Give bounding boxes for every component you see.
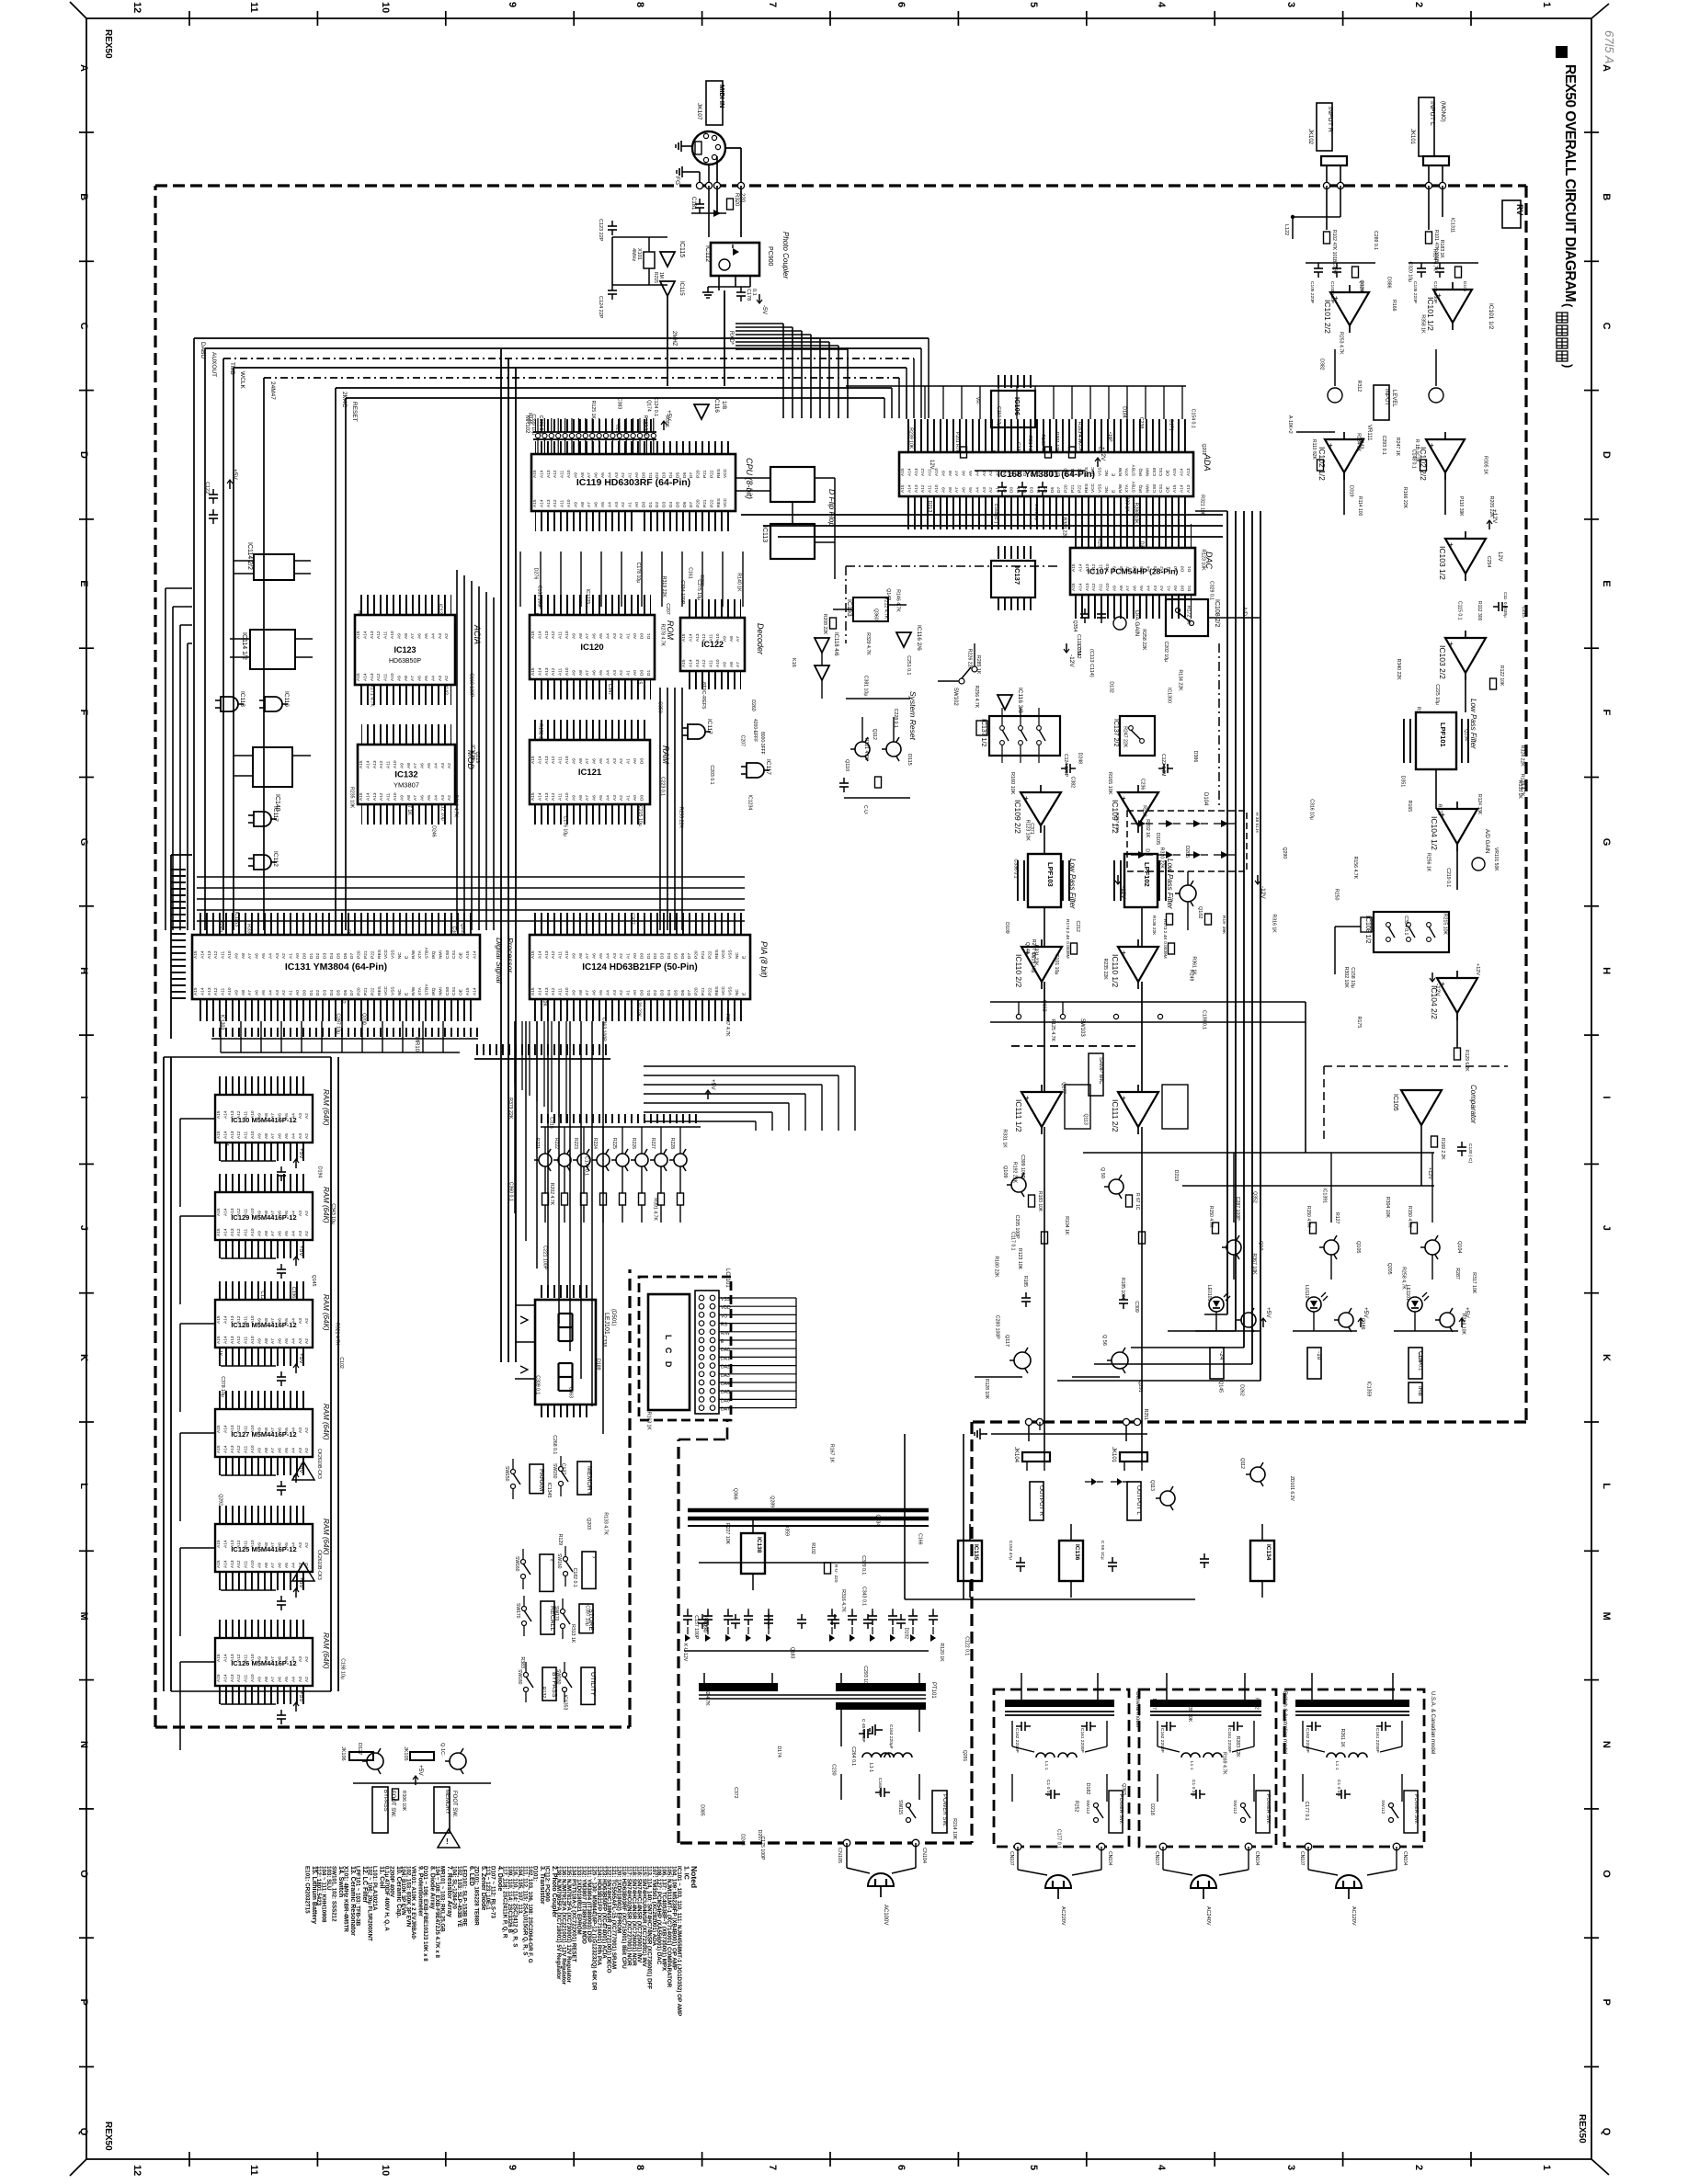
svg-text:+: +	[1329, 441, 1333, 449]
svg-text:A11: A11	[244, 1228, 249, 1236]
svg-text:A2: A2	[281, 953, 287, 959]
svg-text:A5: A5	[261, 953, 267, 959]
svg-text:C122 2.2M: C122 2.2M	[1160, 754, 1166, 776]
svg-text:D101: D101	[1359, 281, 1364, 292]
svg-text:C115 0.1: C115 0.1	[1457, 601, 1463, 620]
zener cluster	[1091, 1478, 1097, 1485]
svg-text:A6: A6	[592, 953, 598, 959]
svg-text:A8: A8	[948, 487, 953, 493]
svg-text:10: 10	[380, 2, 391, 13]
svg-text:R183 10K: R183 10K	[1037, 1191, 1043, 1212]
svg-text:A14: A14	[365, 760, 371, 768]
IC108 2/2 switch	[1166, 599, 1208, 636]
svg-text:D127: D127	[357, 1743, 362, 1755]
svg-text:CS1: CS1	[1158, 483, 1164, 493]
svg-text:A8: A8	[578, 953, 584, 959]
svg-text:A5: A5	[284, 1133, 290, 1139]
IC120 ROM	[533, 595, 651, 615]
svg-text:A2: A2	[304, 1231, 310, 1236]
IC116 3/8 triangle	[998, 695, 1012, 710]
left bus into DSP	[170, 855, 172, 1039]
svg-text:A6: A6	[278, 1231, 283, 1236]
svg-text:A15: A15	[193, 950, 199, 959]
svg-text:A·10K×2: A·10K×2	[1287, 415, 1293, 434]
svg-text:A14: A14	[222, 1336, 228, 1344]
svg-text:MR102: MR102	[524, 415, 530, 434]
IC130	[219, 1076, 309, 1095]
svg-text:C280 100P: C280 100P	[994, 1315, 999, 1339]
svg-text:R150 4.7K: R150 4.7K	[1306, 1206, 1311, 1228]
svg-text:P21: P21	[702, 470, 708, 478]
svg-text:R·U· 220: R·U· 220	[833, 1564, 838, 1583]
svg-text:A4: A4	[975, 487, 980, 493]
svg-text:R136 22K: R136 22K	[1151, 916, 1157, 936]
svg-text:C309: C309	[1134, 1301, 1139, 1313]
svg-text:IC105: IC105	[1392, 1094, 1398, 1111]
svg-text:IC132: IC132	[394, 770, 417, 780]
svg-text:A8: A8	[264, 1448, 269, 1453]
svg-text:A15: A15	[1172, 484, 1178, 493]
svg-text:R224: R224	[592, 1138, 598, 1149]
svg-text:Photo Coupler: Photo Coupler	[781, 232, 790, 279]
IC123 ACIA	[359, 595, 451, 615]
svg-text:C105 220P: C105 220P	[1309, 281, 1315, 303]
svg-text:REX50 OVERALL CIRCUIT DIAGRAM: REX50 OVERALL CIRCUIT DIAGRAM	[1562, 64, 1578, 301]
svg-text:R140 1K: R140 1K	[736, 573, 742, 592]
svg-text:VCC: VCC	[383, 985, 389, 995]
svg-text:D7: D7	[689, 502, 694, 507]
svg-text:A3: A3	[275, 990, 280, 995]
svg-text:A2: A2	[304, 1448, 310, 1453]
svg-text:E: E	[78, 580, 89, 586]
svg-text:A8: A8	[264, 1563, 269, 1568]
opamps IC111	[1021, 1092, 1062, 1127]
IC137 2/2 switch	[1120, 716, 1155, 756]
svg-text:VSS: VSS	[728, 950, 734, 959]
svg-text:P20: P20	[694, 950, 700, 959]
svg-text:D386: D386	[1192, 751, 1198, 763]
svg-text:A5: A5	[599, 758, 604, 764]
svg-text:A4: A4	[291, 1338, 296, 1344]
svg-text:LEJ101: LEJ101	[603, 1313, 610, 1335]
svg-text:A8: A8	[406, 763, 412, 768]
svg-text:P21: P21	[1070, 484, 1076, 493]
svg-text:Decoder: Decoder	[756, 623, 765, 655]
svg-text:D382: D382	[1319, 358, 1325, 370]
grid ticks top/bottom	[188, 11, 190, 26]
svg-text:C178: C178	[746, 289, 751, 301]
svg-text:A8: A8	[578, 633, 584, 639]
svg-text:D1: D1	[1187, 586, 1192, 591]
svg-text:A1: A1	[626, 953, 632, 959]
svg-text:A13: A13	[1186, 468, 1192, 476]
svg-text:67l5 A: 67l5 A	[1602, 30, 1616, 63]
svg-text:P201 R7K: P201 R7K	[954, 432, 960, 453]
A/D GAIN trimmer	[1472, 858, 1485, 870]
svg-text:IC122: IC122	[701, 640, 724, 649]
svg-text:R257 25K: R257 25K	[1114, 813, 1120, 833]
svg-text:A15: A15	[216, 1131, 222, 1139]
svg-text:A8: A8	[406, 795, 412, 801]
svg-text:P20: P20	[1064, 484, 1069, 493]
svg-text:O: O	[1601, 1870, 1612, 1878]
svg-text:A12: A12	[920, 484, 926, 493]
svg-text:R301 13K: R301 13K	[1054, 432, 1059, 453]
svg-text:IC114 1/2: IC114 1/2	[241, 632, 247, 660]
svg-text:A3: A3	[298, 1448, 303, 1453]
svg-text:2: 2	[1413, 2, 1424, 7]
svg-text:D0: D0	[639, 990, 644, 995]
svg-text:C343 0.1: C343 0.1	[861, 1587, 867, 1606]
svg-text:INPUT L: INPUT L	[1429, 101, 1435, 126]
svg-text:): )	[1561, 364, 1575, 368]
svg-text:D6: D6	[682, 502, 688, 507]
svg-text:C219 0.1: C219 0.1	[1445, 868, 1451, 887]
svg-text:D1: D1	[646, 670, 652, 676]
svg-text:C207: C207	[740, 735, 746, 747]
svg-text:R124 33K: R124 33K	[1477, 794, 1482, 815]
svg-text:C117 0.1: C117 0.1	[1010, 1232, 1016, 1251]
svg-text:D109: D109	[1004, 922, 1009, 934]
SAMPLE MIC boxed	[1089, 1053, 1103, 1096]
svg-text:VDD: VDD	[721, 1305, 731, 1311]
svg-text:A10: A10	[566, 470, 572, 478]
svg-text:IC126 M5M4416P-12: IC126 M5M4416P-12	[231, 1659, 296, 1667]
svg-text:D276: D276	[532, 568, 538, 580]
svg-text:IC112: IC112	[704, 245, 711, 262]
svg-text:N: N	[1601, 1741, 1612, 1748]
svg-text:A15: A15	[216, 1336, 222, 1344]
svg-text:A15: A15	[216, 1445, 222, 1453]
svg-text:C124 270P: C124 270P	[1063, 754, 1068, 778]
svg-text:A13: A13	[544, 792, 550, 801]
svg-text:A0: A0	[295, 990, 301, 995]
svg-text:G: G	[1601, 838, 1612, 847]
svg-text:A10: A10	[250, 1445, 256, 1453]
svg-text:A9: A9	[257, 1231, 262, 1236]
svg-text:A7: A7	[585, 633, 590, 639]
svg-text:A3: A3	[440, 795, 446, 801]
svg-text:A8: A8	[578, 758, 584, 764]
svg-text:A15: A15	[216, 1315, 222, 1324]
svg-text:A0: A0	[633, 670, 638, 676]
svg-text:A13: A13	[207, 950, 212, 959]
svg-text:220: 220	[739, 193, 745, 203]
LCD connector strip	[695, 1291, 719, 1414]
IC125	[219, 1506, 309, 1524]
svg-text:O: O	[78, 1870, 89, 1878]
svg-text:14. Switch: 14. Switch	[337, 1866, 344, 1897]
svg-text:A4: A4	[291, 1563, 296, 1568]
svg-text:7: 7	[767, 2, 778, 7]
svg-text:I: I	[1601, 1096, 1612, 1098]
svg-text:A8: A8	[264, 1133, 269, 1139]
svg-text:A7: A7	[247, 990, 253, 995]
svg-text:Comparator: Comparator	[1469, 1085, 1477, 1124]
RV box	[1502, 200, 1521, 228]
svg-text:IC103 2/2: IC103 2/2	[1438, 645, 1447, 679]
svg-text:A3: A3	[612, 670, 618, 676]
svg-text:PC900: PC900	[767, 246, 773, 267]
svg-text:A13: A13	[544, 950, 550, 959]
svg-text:A1: A1	[626, 758, 632, 764]
svg-text:A7: A7	[585, 990, 590, 995]
svg-text:A5: A5	[968, 471, 974, 476]
svg-text:A13: A13	[370, 673, 375, 681]
svg-text:D3: D3	[660, 990, 666, 995]
wires DSP-PIA row down	[220, 1021, 222, 1052]
svg-text:A12: A12	[701, 659, 707, 667]
svg-text:A3: A3	[612, 990, 618, 995]
svg-text:IC135: IC135	[973, 1544, 979, 1561]
opamps IC109	[1021, 792, 1061, 825]
svg-text:A10: A10	[565, 667, 570, 676]
svg-text:P21: P21	[701, 950, 706, 959]
svg-text:P20: P20	[696, 470, 701, 478]
svg-text:A5: A5	[1139, 586, 1145, 591]
svg-text:1: 1	[1541, 2165, 1552, 2170]
svg-text:NC: NC	[1104, 470, 1110, 476]
svg-text:R383: R383	[519, 1657, 525, 1669]
svg-text:A8: A8	[580, 502, 586, 507]
svg-text:A3: A3	[298, 1231, 303, 1236]
svg-text:CS1: CS1	[451, 986, 457, 995]
svg-text:A10: A10	[250, 1228, 256, 1236]
svg-text:IC123: IC123	[393, 645, 416, 654]
svg-text:A9: A9	[399, 795, 405, 801]
svg-text:P22: P22	[370, 987, 375, 995]
svg-text:-12V: -12V	[1434, 984, 1441, 996]
misc transistors near reg	[1160, 1491, 1175, 1506]
svg-text:VSS: VSS	[1098, 467, 1103, 476]
svg-text:IC117: IC117	[706, 719, 713, 734]
svg-text:XTA: XTA	[1124, 483, 1130, 493]
svg-text:JK106: JK106	[340, 1746, 346, 1761]
switch BYPASS	[542, 1667, 556, 1701]
svg-text:IC110 2/2: IC110 2/2	[1014, 954, 1023, 988]
svg-text:9: 9	[507, 2, 518, 7]
svg-text:D7: D7	[349, 990, 355, 995]
svg-text:MOD: MOD	[466, 750, 475, 769]
svg-text:A12: A12	[553, 470, 558, 478]
svg-text:J: J	[78, 1225, 89, 1231]
svg-text:C1·0 0.1: C1·0 0.1	[1191, 1780, 1196, 1797]
svg-text:L1·1: L1·1	[1189, 1761, 1194, 1770]
svg-text:RES: RES	[377, 950, 382, 959]
svg-text:A10: A10	[715, 659, 721, 667]
dashed support lines comparator	[1324, 1065, 1508, 1067]
svg-text:8000-3FFF: 8000-3FFF	[759, 732, 765, 755]
svg-text:A9: A9	[396, 676, 402, 681]
connector JK107 MIDI IN	[706, 81, 723, 125]
svg-text:A10: A10	[565, 987, 570, 995]
svg-text:A15: A15	[216, 1654, 222, 1662]
svg-text:R166 22K: R166 22K	[1402, 487, 1408, 509]
svg-text:Q104: Q104	[1456, 1241, 1462, 1253]
svg-text:A15: A15	[356, 631, 361, 639]
svg-text:A12: A12	[236, 1228, 242, 1236]
svg-text:A14: A14	[537, 792, 542, 801]
svg-text:PARAM: PARAM	[538, 1469, 544, 1492]
svg-text:A13: A13	[1186, 484, 1192, 493]
RAM bus verticals	[163, 1057, 165, 1691]
svg-text:L1·1: L1·1	[1334, 1761, 1340, 1770]
svg-text:D219: D219	[1173, 1170, 1179, 1182]
svg-text:A2: A2	[304, 1133, 310, 1139]
svg-text:R183 1K: R183 1K	[1439, 240, 1444, 259]
svg-text:A5: A5	[424, 676, 429, 681]
IC137 1/2 switches	[989, 716, 1060, 756]
svg-text:A4: A4	[430, 633, 436, 639]
IC168 YM3801 ADA	[903, 419, 1190, 452]
svg-text:D6: D6	[343, 990, 348, 995]
svg-text:RAM: RAM	[661, 745, 670, 765]
svg-text:K250 23K: K250 23K	[1078, 432, 1083, 453]
svg-text:A14: A14	[222, 1208, 228, 1216]
svg-text:A14: A14	[222, 1654, 228, 1662]
svg-text:C221 100P: C221 100P	[542, 1246, 548, 1269]
svg-text:NMI: NMI	[1145, 468, 1150, 476]
svg-text:E: E	[741, 956, 747, 959]
LPF101	[1416, 712, 1456, 769]
svg-text:D2: D2	[653, 990, 658, 995]
svg-text:-12V: -12V	[1120, 886, 1126, 899]
svg-text:A12: A12	[379, 760, 384, 768]
svg-text:R167 1K: R167 1K	[828, 1444, 834, 1463]
svg-text:A13: A13	[546, 470, 552, 478]
svg-text:A15: A15	[681, 633, 687, 642]
svg-text:C251 0.1: C251 0.1	[906, 655, 911, 675]
svg-text:A1: A1	[626, 990, 632, 995]
svg-text:13. Ceramic Resonator: 13. Ceramic Resonator	[349, 1866, 356, 1936]
svg-text:R202 4.7K: R202 4.7K	[549, 1183, 554, 1206]
svg-text:D6: D6	[680, 990, 686, 995]
svg-text:L C D: L C D	[664, 1335, 673, 1370]
svg-text:YM3807: YM3807	[393, 781, 419, 790]
svg-text:A12: A12	[551, 631, 556, 639]
svg-text:D4: D4	[668, 502, 674, 507]
svg-text:C130 (·C): C130 (·C)	[1467, 1143, 1473, 1163]
svg-text:A14: A14	[222, 1560, 228, 1568]
svg-text:A2: A2	[304, 1542, 310, 1548]
svg-text:R256 4.7K: R256 4.7K	[974, 686, 979, 709]
svg-text:C157 100P: C157 100P	[693, 1615, 699, 1639]
svg-text:E: E	[404, 956, 409, 959]
svg-text:IC101 2/2: IC101 2/2	[1323, 300, 1332, 334]
svg-text:A3: A3	[298, 1542, 303, 1548]
svg-text:A11: A11	[383, 673, 389, 681]
svg-text:A13: A13	[544, 756, 550, 764]
lcd bus right	[736, 1331, 796, 1333]
svg-text:A13: A13	[544, 667, 550, 676]
svg-text:TMB: TMB	[229, 362, 235, 375]
svg-text:A6: A6	[420, 795, 426, 801]
svg-text:2. Photo Coupler: 2. Photo Coupler	[551, 1866, 557, 1917]
svg-text:A6: A6	[592, 990, 598, 995]
svg-text:D4: D4	[329, 990, 335, 995]
svg-text:A11: A11	[558, 667, 564, 676]
svg-text:C354 0.1: C354 0.1	[1403, 916, 1409, 935]
nested wires up-right of transistors	[644, 1065, 855, 1067]
svg-text:+5V: +5V	[298, 1148, 304, 1159]
svg-text:B: B	[1601, 193, 1612, 200]
svg-text:IC108 1/2: IC108 1/2	[1364, 916, 1371, 943]
svg-text:Q363: Q363	[1121, 1783, 1126, 1795]
svg-text:R223: R223	[573, 1138, 578, 1149]
svg-text:9: 9	[507, 2165, 518, 2170]
svg-text:4200-EFFF: 4200-EFFF	[752, 719, 758, 742]
svg-text:A14: A14	[362, 673, 368, 681]
svg-text:R123 10K: R123 10K	[1017, 1248, 1022, 1270]
svg-text:SAMP MIC: SAMP MIC	[1098, 1057, 1103, 1085]
svg-text:SW112: SW112	[1380, 1800, 1386, 1814]
svg-text:C111 C112: C111 C112	[1076, 634, 1081, 659]
svg-text:Q113: Q113	[1149, 1480, 1155, 1491]
svg-text:C372: C372	[733, 1787, 738, 1799]
svg-text:R185: R185	[1022, 1276, 1028, 1287]
IC116 1/8 inverter	[694, 404, 709, 419]
svg-text:+5V: +5V	[666, 410, 672, 421]
svg-text:A8: A8	[1119, 586, 1124, 591]
svg-text:R150 4.7K: R150 4.7K	[1407, 1206, 1412, 1228]
svg-text:D0: D0	[1180, 586, 1185, 591]
svg-text:H: H	[1601, 967, 1612, 974]
misc caps left	[209, 494, 218, 495]
svg-text:CS0: CS0	[1152, 467, 1158, 476]
svg-text:REX50: REX50	[1577, 2114, 1587, 2144]
svg-text:JK104: JK104	[1013, 1447, 1019, 1463]
svg-text:P110 39K: P110 39K	[1458, 496, 1464, 517]
svg-text:A0: A0	[295, 953, 301, 959]
svg-text:CN107: CN107	[1009, 1851, 1014, 1866]
IC103 2/2 opamp	[1445, 638, 1486, 673]
svg-text:A7: A7	[736, 662, 741, 667]
svg-text:A10: A10	[393, 760, 398, 768]
svg-text:VCC: VCC	[383, 949, 389, 959]
svg-text:C202 10µ: C202 10µ	[1163, 642, 1169, 663]
LED cluster CLIP	[1425, 1240, 1440, 1255]
svg-text:R226 22K: R226 22K	[967, 649, 973, 671]
switch UTILITY	[581, 1667, 595, 1704]
svg-text:D4: D4	[667, 990, 672, 995]
svg-text:LPF103: LPF103	[1046, 862, 1055, 887]
svg-text:C177 0.1: C177 0.1	[1304, 1802, 1309, 1821]
svg-text:+: +	[1441, 811, 1445, 819]
svg-text:C153 47µ: C153 47µ	[1008, 1541, 1013, 1560]
svg-text:A15: A15	[530, 987, 536, 995]
svg-text:A1: A1	[626, 795, 632, 801]
thick power rails	[688, 1508, 929, 1513]
svg-text:M: M	[78, 1612, 89, 1621]
svg-text:C382: C382	[1070, 777, 1076, 789]
svg-text:A3: A3	[1153, 586, 1158, 591]
svg-text:R278 4.7K: R278 4.7K	[660, 624, 666, 647]
svg-text:R358 1K: R358 1K	[1420, 314, 1425, 334]
svg-text:P22: P22	[1077, 484, 1082, 493]
svg-text:D6: D6	[343, 953, 348, 959]
svg-text:R228: R228	[669, 1138, 675, 1149]
svg-text:E: E	[1601, 580, 1612, 586]
svg-text:A15: A15	[530, 631, 536, 639]
IC115 inverters + crystal	[612, 236, 667, 238]
opamps IC110	[1021, 947, 1062, 982]
svg-text:12: 12	[131, 2165, 143, 2176]
svg-text:A1: A1	[289, 990, 294, 995]
svg-text:C338: C338	[601, 1336, 607, 1348]
svg-text:A10: A10	[390, 673, 395, 681]
DSP IC131	[196, 913, 476, 935]
transformer 1 secondary wiring	[840, 1710, 842, 1732]
